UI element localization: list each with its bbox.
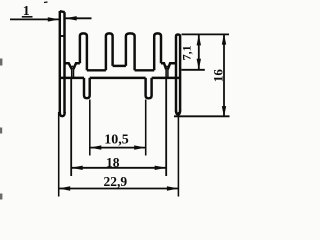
dim 18 line <box>71 167 166 169</box>
dim 1 left arrowhead <box>48 17 60 21</box>
dimension lines <box>10 17 230 197</box>
dim 16 bottom arrowhead <box>222 106 226 117</box>
dim 22,9 left arrowhead <box>59 186 70 190</box>
dim 1 line left part <box>10 18 59 20</box>
channel floor between fin F2 and fin F3 <box>87 69 106 71</box>
top extension line at fin-top level <box>182 33 230 35</box>
base underside left segment <box>61 77 84 79</box>
dim 10,5 right extension line <box>145 100 147 156</box>
speckle <box>44 1 48 4</box>
svg-text:1: 1 <box>23 4 30 19</box>
dim 7,1 top arrowhead <box>197 35 201 46</box>
dim 1 line right part <box>65 17 91 19</box>
dim 16 top arrowhead <box>222 34 226 45</box>
svg-text:22,9: 22,9 <box>103 174 127 189</box>
dim 7,1 bottom arrowhead <box>197 59 201 70</box>
dim 16 bottom extension line <box>174 115 230 117</box>
base underside right segment <box>152 77 180 79</box>
channel floor between fin F3 and fin F4 <box>113 65 126 67</box>
svg-text:10,5: 10,5 <box>104 133 129 148</box>
scan edge marks <box>0 59 2 66</box>
svg-text:7,1: 7,1 <box>180 45 194 60</box>
right wall <box>176 35 180 112</box>
left inner leg <box>84 78 90 98</box>
left outer fin / wall (1mm bar) <box>59 11 61 113</box>
dim 7,1 bottom extension line <box>182 69 205 71</box>
svg-text:16: 16 <box>210 69 225 83</box>
dim 22,9 right arrowhead <box>167 186 179 190</box>
arrowheads <box>48 16 226 191</box>
dim 22,9 line <box>59 188 179 190</box>
fin F3 <box>106 33 113 70</box>
dim 18 right extension line <box>165 78 167 176</box>
dim 7,1 line <box>198 34 200 69</box>
left keyhole slot (clip groove) <box>65 63 72 69</box>
dim 18 left arrowhead <box>71 166 83 170</box>
fin F4 <box>126 33 135 70</box>
fin F5 <box>154 33 161 70</box>
fin F2 <box>80 33 87 70</box>
right keyhole dot <box>166 65 168 67</box>
dim 18 right arrowhead <box>155 166 167 170</box>
tick on bar <box>60 35 65 37</box>
dim 10,5 right arrowhead <box>134 145 146 149</box>
dim 1 right arrowhead <box>65 16 77 20</box>
dim 22,9 left extension line <box>58 112 60 197</box>
right inner leg <box>146 78 152 98</box>
left keyhole dot <box>72 65 74 67</box>
dim 16 line <box>223 34 225 116</box>
dim 10,5 left arrowhead <box>90 145 102 149</box>
dim 10,5 left extension line <box>89 100 91 156</box>
base underside middle segment <box>90 77 146 79</box>
dim 10,5 line <box>90 147 146 149</box>
dim 22,9 right extension line <box>177 112 179 197</box>
svg-text:18: 18 <box>106 155 120 170</box>
right keyhole slot (clip groove) <box>161 63 166 69</box>
dim 18 left extension line <box>70 78 72 176</box>
channel floor between fin F4 and fin F5 <box>135 69 155 71</box>
dim 1 label underline <box>22 16 33 18</box>
